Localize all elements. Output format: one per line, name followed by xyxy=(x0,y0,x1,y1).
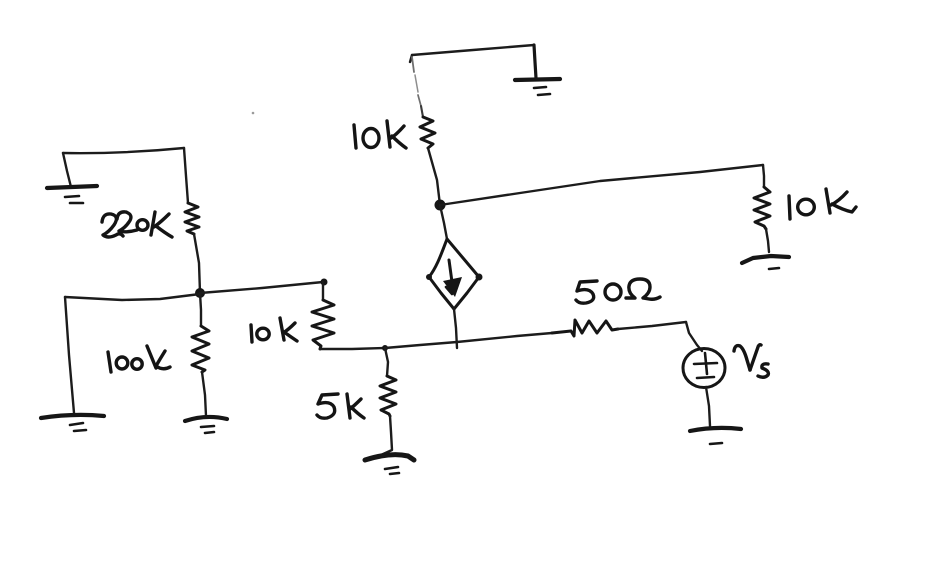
pen speck xyxy=(252,112,255,115)
wire junction to R6 xyxy=(457,333,552,342)
wire N3 to diamond junction xyxy=(385,342,457,348)
wire top-left drop to ground xyxy=(63,153,71,187)
wire R2 to ground xyxy=(766,229,769,252)
wire N1 to far right xyxy=(440,165,763,205)
label 10k top xyxy=(354,121,406,148)
ground G7 xyxy=(690,428,741,444)
ground G4 xyxy=(41,415,104,431)
wire R5 to ground xyxy=(202,372,206,416)
ground G3 xyxy=(47,186,97,203)
wire N2 to right xyxy=(200,282,323,293)
wire diamond bottom to junction xyxy=(454,309,457,348)
resistor R4 10k (vertical) xyxy=(312,279,334,350)
ground G1 xyxy=(515,79,560,95)
wire bottom horizontal R4 to N3 xyxy=(320,348,385,349)
wire R6 to corner xyxy=(618,322,686,329)
wire R3 to node N2 xyxy=(194,234,200,293)
wire N2 down to R5 xyxy=(200,293,201,326)
ground G2 xyxy=(742,256,789,269)
label 50ohm xyxy=(576,279,660,303)
label 220k xyxy=(102,212,172,237)
ground G5 xyxy=(185,417,227,433)
wire corner down to source xyxy=(686,322,702,351)
wire N3 down to R7 xyxy=(385,348,388,376)
wire top horizontal xyxy=(412,45,534,55)
node N1 xyxy=(435,200,446,211)
wire top-left loop top xyxy=(63,148,184,153)
ground G6 xyxy=(365,455,414,474)
wire left drop (faint) xyxy=(412,57,414,72)
dependent source U1 diamond xyxy=(426,239,483,309)
wire right drop to ground xyxy=(534,45,536,78)
arrow inside diamond xyxy=(443,260,462,297)
label Vs xyxy=(734,345,768,378)
resistor R1 10k xyxy=(420,117,435,148)
wire source to ground xyxy=(706,387,710,426)
wire N1 down to diamond xyxy=(440,205,447,239)
node N2 xyxy=(195,288,205,298)
source VS xyxy=(683,349,725,388)
label 10k mid xyxy=(251,318,297,342)
wire R1 to node N1 xyxy=(428,148,440,205)
resistor R3 220k xyxy=(185,203,199,234)
label 100k xyxy=(108,346,170,372)
resistor R6 50 ohm xyxy=(552,320,618,336)
label 10k right xyxy=(789,189,856,219)
resistor R7 5k xyxy=(380,376,396,416)
wire right drop xyxy=(763,165,764,187)
wire N2 to left xyxy=(65,294,200,300)
wire top-left loop right drop xyxy=(184,148,188,203)
label 5k xyxy=(317,394,364,418)
resistor R2 10k right xyxy=(754,187,770,229)
node N3 xyxy=(382,345,388,351)
wire R7 to ground xyxy=(381,416,392,455)
resistor R5 100k xyxy=(192,326,209,372)
wire left drop to ground xyxy=(65,297,74,413)
